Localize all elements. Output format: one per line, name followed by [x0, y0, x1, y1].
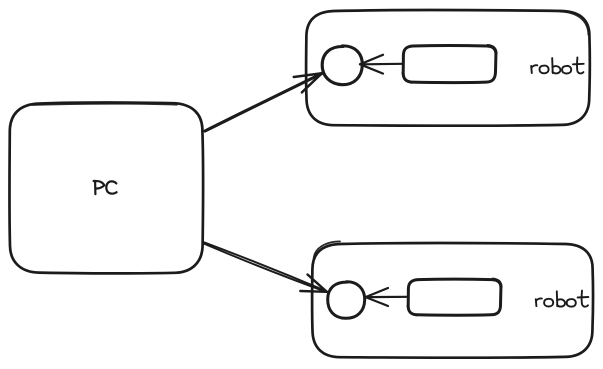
bottom robot label — [536, 291, 589, 307]
top robot box — [306, 10, 590, 126]
top inner arrow (rect to circle) — [360, 55, 403, 74]
PC box — [9, 102, 203, 273]
arrow PC to bottom robot (doubled stroke) — [204, 242, 326, 292]
bottom circle — [328, 282, 365, 319]
bottom robot box — [312, 241, 593, 357]
arrow PC to top robot — [205, 73, 322, 131]
bottom inner arrow (rect to circle) — [366, 288, 408, 306]
PC label — [94, 181, 117, 194]
top inner rect — [402, 45, 496, 83]
top circle — [322, 46, 362, 85]
top robot label — [531, 57, 584, 73]
bottom inner rect — [407, 278, 501, 315]
